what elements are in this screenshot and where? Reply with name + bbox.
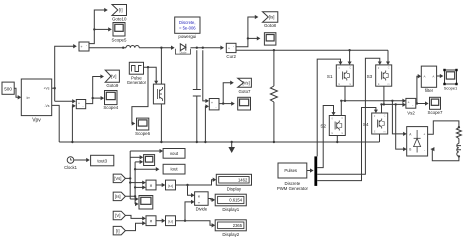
- wire P1 to abs1: [156, 183, 165, 187]
- from tag I: [113, 226, 125, 235]
- wire branch to Scope4: [93, 96, 105, 100]
- label Display1: [222, 207, 239, 212]
- svg-text:-: -: [424, 148, 425, 152]
- label Display: [227, 186, 242, 191]
- svg-text:[Vs]: [Vs]: [242, 80, 249, 85]
- svg-text:[I]: [I]: [116, 228, 120, 233]
- wire Vdc signal to Scope2: [223, 101, 235, 105]
- resistor R1: [270, 50, 277, 143]
- scope Scope2: [238, 97, 251, 110]
- wire phase B to rectifier B: [396, 104, 407, 151]
- label Scope1: [444, 86, 458, 91]
- svg-text:0.6154: 0.6154: [229, 198, 242, 203]
- label Goto7: [239, 89, 252, 94]
- svg-text:Pulses: Pulses: [284, 168, 297, 173]
- display Display2: [215, 220, 246, 231]
- wire rectifier plus to RL load: [428, 121, 460, 134]
- wire abs1 to divide: [188, 185, 195, 197]
- wire to product1 in2: [135, 185, 146, 189]
- svg-text:Scope7: Scope7: [428, 110, 443, 115]
- label powergui: [178, 34, 196, 39]
- wire divide to display1: [208, 198, 215, 202]
- svg-text:Scope5: Scope5: [112, 38, 127, 43]
- svg-text:Clock1: Clock1: [64, 165, 77, 170]
- label Goto10: [112, 17, 127, 22]
- svg-text:|u|: |u|: [168, 183, 172, 188]
- svg-text:Scope4: Scope4: [103, 105, 118, 110]
- svg-text:Vpv: Vpv: [32, 118, 41, 124]
- svg-text:[Is]: [Is]: [115, 194, 121, 199]
- wire Vs tag riser: [125, 151, 131, 199]
- wire bus to S1 collector: [348, 50, 352, 65]
- svg-text:m: m: [388, 83, 390, 86]
- wire S3 emitter to phase B: [383, 86, 385, 105]
- scope ScopeB: [139, 196, 153, 210]
- svg-text:powergui: powergui: [178, 34, 196, 39]
- svg-text:= 5e-006: = 5e-006: [179, 26, 196, 31]
- label S1: [327, 74, 333, 79]
- igbt S4: [372, 113, 388, 134]
- svg-text:Vs2: Vs2: [407, 111, 415, 116]
- svg-text:Display1: Display1: [222, 207, 239, 212]
- wire Vs2 to Scope7: [416, 101, 429, 105]
- product block P1: [146, 180, 156, 190]
- svg-text:tout3: tout3: [97, 158, 107, 163]
- svg-text:C: C: [388, 67, 390, 70]
- label Scope4: [103, 105, 118, 110]
- wire abs2 to divide: [185, 200, 195, 221]
- wire I tag to product2: [125, 221, 145, 231]
- display Display: [216, 174, 251, 185]
- wire phase B to Vs2: [382, 103, 407, 107]
- wire pulses to demux: [307, 168, 314, 172]
- display Display1: [215, 194, 246, 206]
- label Scope6: [135, 131, 150, 136]
- wire DC bus top: [236, 49, 388, 51]
- svg-text:[Vs]: [Vs]: [114, 176, 121, 181]
- svg-text:S4: S4: [363, 122, 369, 127]
- svg-text:Display: Display: [227, 186, 242, 191]
- goto tag Goto8: [263, 12, 278, 23]
- scope Scope7: [430, 97, 441, 109]
- svg-text:Cur2: Cur2: [226, 54, 236, 59]
- wire Vdc signal to Goto7: [219, 81, 234, 105]
- wire to Iout: [135, 167, 159, 171]
- svg-text:×: ×: [150, 219, 153, 225]
- inductor L1: [126, 46, 139, 48]
- label Display2: [222, 232, 239, 237]
- svg-text:vout: vout: [170, 151, 179, 156]
- wire gate S4: [317, 108, 378, 181]
- svg-text:Divide: Divide: [196, 207, 208, 212]
- scope Scope5: [113, 23, 125, 37]
- wire bus to S3 collector: [386, 50, 390, 65]
- clock Clock1: [67, 157, 74, 164]
- resistor R load: [456, 128, 461, 139]
- svg-text:S1: S1: [327, 74, 333, 79]
- label Vs2: [407, 111, 415, 116]
- abs block Abs1: [166, 180, 176, 190]
- wire S1 emitter to phase A: [344, 86, 346, 102]
- svg-text:-Vs: -Vs: [44, 104, 49, 108]
- wire to scopeB in1: [130, 197, 138, 201]
- svg-text:Goto10: Goto10: [112, 17, 127, 22]
- svg-text:A: A: [432, 75, 434, 79]
- wire to scopeA in2: [135, 160, 143, 164]
- wire phase A to Vs2: [341, 99, 406, 103]
- voltage measurement Vdc: [209, 99, 219, 110]
- block Iout: [163, 164, 185, 174]
- wire Vpv +Vs up to current sensor: [52, 44, 77, 101]
- ground: [228, 141, 235, 153]
- svg-text:filter: filter: [425, 88, 434, 93]
- wire Cur1 signal up: [89, 8, 108, 44]
- label S4: [363, 122, 369, 127]
- svg-text:500: 500: [4, 86, 12, 91]
- wire to vout: [130, 149, 163, 153]
- from tag Is: [113, 192, 125, 201]
- wire phase A to rectifier A: [392, 101, 406, 136]
- block vout: [163, 149, 185, 159]
- svg-text:m: m: [341, 132, 343, 135]
- wire abs1 to display: [176, 178, 217, 187]
- label S3: [367, 74, 373, 79]
- wire Vpv +Vs to voltage sensor plus: [55, 99, 76, 103]
- wire V tag to product2: [125, 215, 145, 220]
- scope Scope6: [137, 118, 149, 130]
- wire pulse to mosfet gate: [144, 66, 159, 84]
- svg-text:+Vs: +Vs: [44, 87, 50, 91]
- wire gate S2: [317, 106, 335, 168]
- label S2: [320, 124, 326, 129]
- abs block Abs2: [166, 216, 176, 226]
- pulse generator: [129, 62, 143, 74]
- scope Scope1 selected: [443, 69, 457, 85]
- label Divide: [196, 207, 208, 212]
- wire to product1 in1: [130, 180, 146, 184]
- pwm generator block: [278, 163, 307, 178]
- igbt S2: [329, 116, 345, 136]
- svg-text:Scope6: Scope6: [135, 131, 150, 136]
- capacitor C1: [193, 50, 201, 143]
- divide block: [195, 192, 209, 206]
- svg-text:Goto7: Goto7: [239, 89, 252, 94]
- svg-text:Generator: Generator: [127, 80, 147, 85]
- from tag Vs: [113, 174, 125, 183]
- label filter: [425, 88, 434, 93]
- wire R to L: [458, 139, 460, 144]
- svg-text:×: ×: [198, 194, 201, 199]
- svg-text:[Is]: [Is]: [269, 15, 275, 20]
- wire filter to Scope1: [437, 74, 444, 78]
- svg-text:B: B: [409, 148, 411, 152]
- label Scope5: [112, 38, 127, 43]
- svg-text:Display2: Display2: [222, 232, 239, 237]
- demux bar: [314, 156, 317, 186]
- label Vpv: [32, 118, 41, 124]
- wire clock to tout3: [74, 158, 90, 162]
- wire Cur1 to inductor: [89, 47, 126, 49]
- wire Cur1 signal to Scope5: [94, 27, 112, 31]
- svg-text:Diode: Diode: [180, 50, 187, 54]
- wire bottom rail to Vdc sensor minus: [204, 104, 209, 143]
- scope Scope4: [105, 91, 118, 105]
- svg-text:×: ×: [150, 183, 153, 189]
- svg-text:|u|: |u|: [168, 219, 172, 224]
- svg-text:2365: 2365: [233, 223, 243, 228]
- scope ScopeA: [144, 155, 155, 166]
- current measurement Cur1: [79, 42, 89, 51]
- voltage measurement Vs2: [406, 98, 416, 108]
- svg-text:[V]: [V]: [115, 213, 120, 218]
- wire P2 to abs2: [156, 219, 165, 223]
- svg-text:Iout: Iout: [170, 167, 178, 172]
- wire diode to Cur2: [191, 46, 225, 50]
- constant block 500: [2, 82, 14, 94]
- label Scope7: [428, 110, 443, 115]
- label Clock1: [64, 165, 77, 170]
- subsystem Vpv: [21, 79, 51, 116]
- voltage measurement V1: [76, 100, 85, 109]
- wire gate S3: [317, 58, 382, 174]
- svg-text:C: C: [349, 67, 351, 70]
- svg-text:m: m: [384, 131, 386, 134]
- inductor L load: [457, 144, 461, 157]
- from tag V: [113, 211, 125, 220]
- wire V1 to Scope4 and Goto9: [86, 74, 104, 103]
- mosfet Q1: [153, 84, 164, 104]
- wire RL load to rectifier minus: [431, 147, 460, 161]
- wire inductor to diode: [139, 46, 174, 50]
- to workspace tout3: [91, 155, 114, 166]
- wire Is tag riser: [125, 162, 136, 204]
- svg-text:S3: S3: [367, 74, 373, 79]
- wire Cur2 signal up to Goto8: [236, 15, 258, 47]
- wire S2 emitter to bottom rail: [336, 136, 338, 144]
- wire to scopeB in2: [135, 202, 139, 206]
- label Pulse Generator: [127, 76, 147, 86]
- svg-text:A: A: [424, 75, 426, 79]
- wire bottom rail up to voltage sensor minus: [71, 104, 76, 143]
- svg-text:Discrete,: Discrete,: [179, 20, 196, 25]
- wire Vs2 to filter: [417, 74, 421, 103]
- wire bus to mosfet drain: [160, 48, 162, 84]
- svg-text:Goto9: Goto9: [106, 83, 119, 88]
- scope Scope8: [264, 33, 276, 45]
- igbt S3: [376, 65, 392, 86]
- label Goto9: [106, 83, 119, 88]
- wire pulse branch to Scope6: [132, 67, 148, 125]
- transfer block filter: [421, 66, 436, 87]
- svg-text:[I]: [I]: [119, 8, 123, 13]
- svg-text:1462: 1462: [238, 177, 248, 182]
- svg-text:+: +: [423, 133, 425, 137]
- wire gate S1: [317, 59, 342, 156]
- svg-text:Goto8: Goto8: [264, 23, 277, 28]
- svg-text:C: C: [341, 117, 343, 120]
- wire S4 collector to phase B: [380, 103, 382, 113]
- label Cur2: [226, 54, 236, 59]
- wire 500 to Vpv Irr: [14, 88, 21, 99]
- wire to scopeA in1: [130, 155, 143, 159]
- current measurement Cur2: [226, 43, 236, 52]
- wire Cur2 signal to Scope: [248, 36, 261, 40]
- wire Vpv -Vs down to bottom rail: [52, 105, 60, 142]
- wire bottom rail: [59, 141, 379, 143]
- label Goto8: [264, 23, 277, 28]
- label Discrete PWM Generator: [277, 181, 309, 191]
- wire bus to Vdc sensor plus: [203, 50, 209, 103]
- wire mosfet source to bottom rail: [160, 104, 162, 143]
- svg-text:[V]: [V]: [111, 74, 116, 79]
- goto tag Goto9: [105, 70, 119, 82]
- wire S4 emitter to bottom rail: [379, 134, 381, 142]
- wire S2 collector to phase A: [340, 100, 342, 116]
- svg-text:Scope1: Scope1: [444, 86, 458, 91]
- wire abs2 to display2: [176, 220, 216, 228]
- svg-text:C: C: [384, 115, 386, 118]
- goto tag Goto7: [238, 78, 252, 87]
- powergui block: [175, 17, 200, 33]
- igbt S1: [336, 65, 353, 86]
- goto tag Goto10: [112, 5, 127, 16]
- diode D1: [175, 44, 190, 55]
- svg-text:m: m: [349, 83, 351, 86]
- svg-text:PWM Generator: PWM Generator: [277, 186, 309, 191]
- product block P2: [146, 216, 156, 226]
- diode rectifier block: [407, 127, 428, 156]
